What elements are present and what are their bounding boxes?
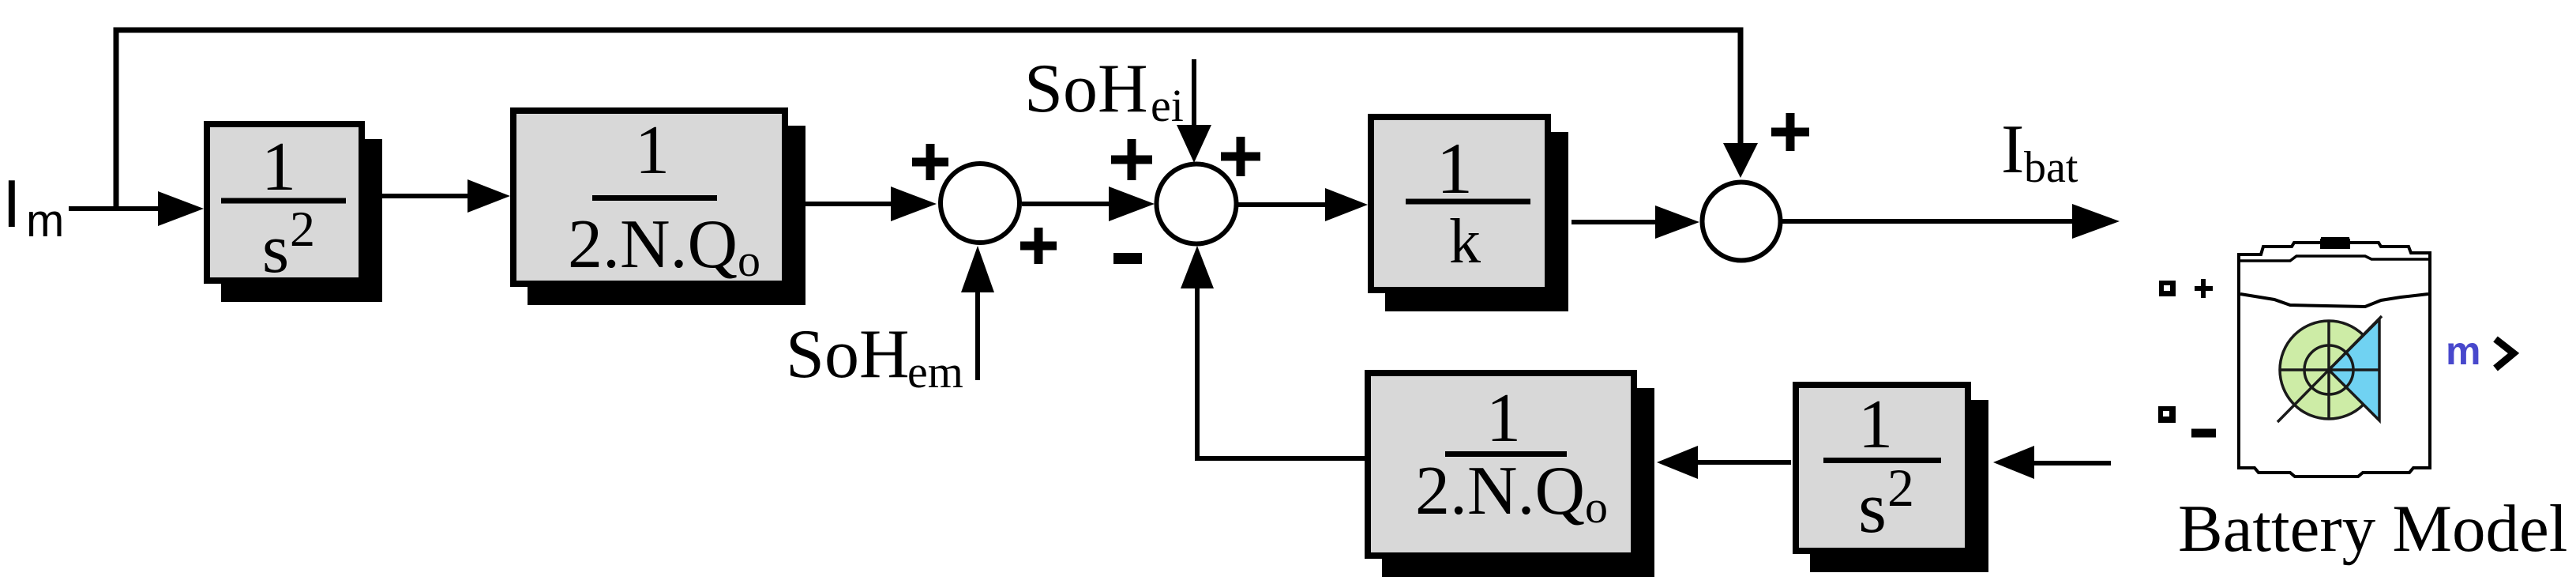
block G2 1/2.N.Qo: [513, 111, 785, 286]
svg-text:1: 1: [1486, 380, 1521, 457]
svg-text:SoH: SoH: [1024, 51, 1148, 127]
svg-text:1: 1: [261, 129, 296, 205]
battery minus sign: [2191, 429, 2216, 438]
sum junction S2: [1157, 164, 1237, 244]
wire battery to G5: [2033, 461, 2111, 465]
arrowhead feedback into S2 bottom: [1181, 246, 1214, 288]
wire G1 to G2: [381, 194, 470, 198]
svg-text:s: s: [262, 211, 289, 288]
sum junction S3: [1703, 183, 1781, 261]
wire feedback branch up from Im: [114, 30, 119, 209]
svg-text:m: m: [26, 195, 64, 247]
plus sign S3 top-right: [1771, 113, 1809, 151]
wire top feedback line: [114, 28, 1744, 33]
block G3 1/k: [1371, 117, 1548, 290]
wire Im input line: [69, 206, 162, 211]
battery port square plus: [2159, 281, 2176, 296]
svg-text:ei: ei: [1151, 80, 1184, 131]
battery model block body: [2239, 239, 2430, 477]
battery liquid level line: [2240, 294, 2428, 307]
svg-text:2: 2: [290, 201, 315, 257]
battery logo inner circle: [2304, 345, 2353, 394]
svg-text:o: o: [738, 235, 760, 286]
svg-text:I: I: [2, 167, 21, 242]
svg-text:2: 2: [1887, 458, 1914, 518]
svg-text:I: I: [2001, 111, 2024, 188]
wire SoHem up into S1: [975, 291, 980, 380]
wire S3 to output Ibat: [1782, 219, 2077, 224]
arrowhead into sum S2: [1109, 187, 1155, 221]
arrowhead into sum S3 from top: [1723, 143, 1758, 178]
arrowhead into block G2: [468, 179, 510, 213]
svg-text:SoH: SoH: [786, 316, 910, 393]
battery logo crosshair: [2280, 321, 2379, 419]
wire top feedback drop into sum S3: [1738, 30, 1744, 146]
battery output chevron: [2495, 339, 2514, 368]
arrowhead SoHei into S2 top: [1177, 125, 1211, 163]
arrowhead into sum S3: [1655, 205, 1699, 239]
svg-text:k: k: [1449, 207, 1481, 277]
svg-text:em: em: [907, 346, 963, 398]
svg-text:Battery Model: Battery Model: [2178, 492, 2567, 566]
wire SoHei down into S2: [1192, 59, 1196, 128]
arrowhead into block G4 right side: [1657, 446, 1698, 479]
block G3 shadow: [1385, 132, 1568, 311]
block G5 shadow: [1810, 400, 1988, 572]
wire S2 to block G3: [1238, 202, 1327, 207]
block G5 1/s^2 bottom: [1796, 385, 1968, 551]
battery logo diagonal slash: [2277, 316, 2382, 422]
arrowhead into block G3: [1325, 188, 1368, 221]
svg-text:2.N.Q: 2.N.Q: [1415, 453, 1585, 530]
block G2 shadow: [528, 126, 805, 305]
arrowhead into block G5 right side: [1993, 446, 2034, 479]
arrowhead into block G1: [158, 191, 204, 226]
svg-text:o: o: [1585, 481, 1608, 533]
svg-text:s: s: [1858, 467, 1887, 548]
wire G5 to G4: [1696, 460, 1791, 465]
arrowhead SoHem into S1 bottom: [961, 246, 994, 292]
battery top button: [2320, 239, 2350, 249]
wire G3 to sum S3: [1572, 220, 1657, 224]
wire S1 to S2: [1022, 202, 1110, 206]
wire bottom feedback corner to S2: [1197, 443, 1365, 458]
battery logo blue triangle: [2329, 319, 2379, 420]
svg-text:1: 1: [1436, 128, 1473, 209]
svg-text:m: m: [2446, 329, 2480, 373]
plus sign S2 top-left: [1111, 139, 1152, 180]
minus sign S2 bottom-left: [1113, 253, 1142, 264]
sum junction S1: [941, 164, 1020, 243]
svg-text:bat: bat: [2024, 143, 2078, 192]
svg-text:2.N.Q: 2.N.Q: [568, 206, 738, 283]
battery plus sign: [2195, 279, 2213, 298]
block G1 1/s^2: [207, 124, 362, 288]
block G1 shadow: [221, 139, 382, 302]
wire feedback up into S2 bottom: [1195, 286, 1200, 458]
plus sign S2 top-right: [1221, 137, 1260, 176]
svg-text:1: 1: [1858, 386, 1893, 463]
arrowhead into sum S1: [891, 187, 937, 221]
block G4 shadow: [1382, 388, 1654, 577]
battery logo green circle: [2280, 321, 2378, 419]
block G4 1/2.N.Qo bottom: [1368, 373, 1634, 556]
battery port square minus: [2158, 406, 2176, 423]
plus sign S1 bottom-right: [1020, 228, 1057, 264]
svg-text:1: 1: [635, 112, 670, 189]
plus sign S1 top-left: [912, 144, 948, 180]
wire G2 to sum S1: [805, 202, 892, 206]
battery inner top contour: [2240, 256, 2428, 261]
arrowhead output Ibat: [2072, 204, 2120, 239]
